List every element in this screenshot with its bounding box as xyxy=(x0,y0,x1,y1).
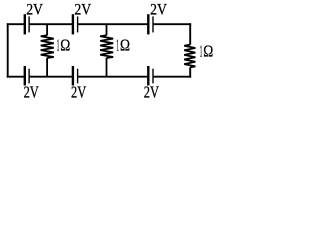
wire right edge top lead xyxy=(189,23,191,44)
wire top bus segment left xyxy=(7,23,24,25)
wire bottom bus segment 2 xyxy=(29,76,72,78)
wire top bus segment 2 xyxy=(29,23,72,25)
wire bottom bus segment left xyxy=(7,76,24,78)
battery V3 (top right) 2V xyxy=(148,14,153,34)
battery V2 (top middle) 2V xyxy=(73,14,78,34)
svg-text:2V: 2V xyxy=(150,1,167,18)
svg-text:1: 1 xyxy=(116,35,119,54)
svg-text:2V: 2V xyxy=(74,1,91,18)
svg-text:2V: 2V xyxy=(71,82,86,101)
battery V6 (bottom right) 2V xyxy=(148,66,153,86)
resistor R2 1ohm (middle) xyxy=(100,24,113,76)
svg-text:1: 1 xyxy=(200,42,203,61)
wire top bus segment 3 xyxy=(78,23,148,25)
svg-text:1: 1 xyxy=(57,35,60,54)
svg-text:Ω: Ω xyxy=(203,42,213,61)
battery V5 (bottom middle) 2V xyxy=(73,66,78,86)
svg-text:2V: 2V xyxy=(26,1,43,18)
wire bottom bus segment 3 xyxy=(78,76,148,78)
wire left edge xyxy=(7,23,9,77)
resistor R3 1ohm (right edge) xyxy=(184,45,195,68)
battery V1 (top left) 2V xyxy=(25,14,29,34)
svg-text:2V: 2V xyxy=(24,82,39,101)
wire right edge bottom lead xyxy=(189,67,191,77)
svg-text:Ω: Ω xyxy=(60,35,70,54)
svg-text:Ω: Ω xyxy=(120,35,130,54)
battery V4 (bottom left) 2V xyxy=(25,66,29,86)
wire bottom bus segment right xyxy=(153,76,191,78)
svg-text:2V: 2V xyxy=(144,82,159,101)
resistor R1 1ohm (left) xyxy=(41,24,54,76)
wire top bus segment right xyxy=(153,23,191,25)
